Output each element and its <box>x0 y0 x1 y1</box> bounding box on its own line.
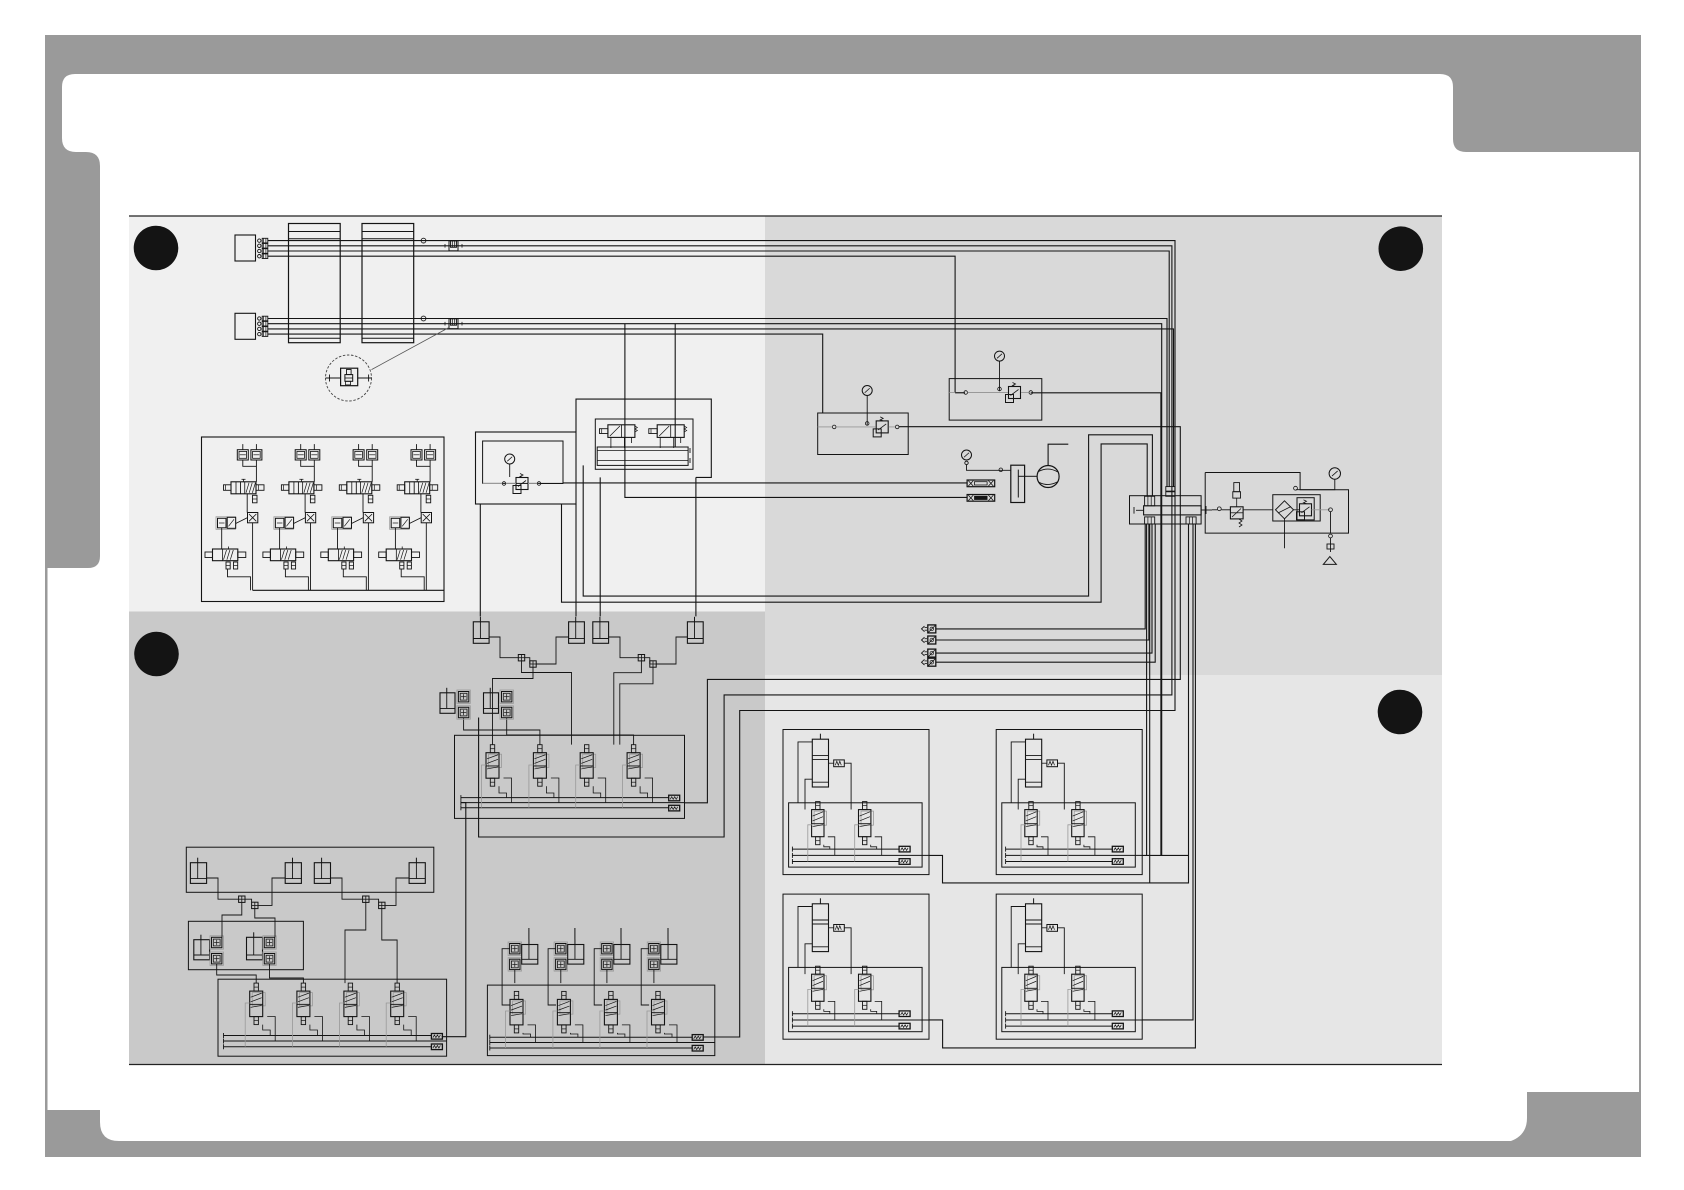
actuator box BR-B <box>996 730 1142 875</box>
wire coupling row 2 <box>936 524 1149 640</box>
pilot valve pair box <box>595 419 693 469</box>
cluster A bus wire <box>253 589 444 591</box>
wire TL to cylinder A1 rod <box>479 504 481 616</box>
cylinder C2 <box>285 863 301 884</box>
sequence valve VB4 <box>630 754 643 767</box>
wires flow controls to valves C <box>217 964 304 983</box>
bus connector DD1 <box>692 1035 703 1041</box>
cylinder B6 <box>484 693 499 714</box>
coupling QC4 <box>922 658 936 666</box>
wire BR-D out <box>1142 524 1193 1020</box>
shutoff valve SV1 <box>1212 483 1273 527</box>
flow control FB2 <box>457 706 470 719</box>
valve group A2 <box>263 444 322 590</box>
sequence valve VB2 <box>536 754 549 767</box>
wire loop rectangle <box>576 399 711 477</box>
sequence valve VB1 <box>489 754 502 767</box>
manifold block M1 <box>289 224 341 343</box>
cylinder C4 <box>409 863 425 884</box>
valve group A4 <box>379 444 438 590</box>
marker circle 4 <box>1378 690 1423 735</box>
page frame bottom-right block <box>1511 1092 1641 1141</box>
actuator box BR-C <box>783 894 929 1039</box>
terminal block X2 <box>235 313 268 339</box>
valve row frame B <box>455 735 685 818</box>
cylinder C1 <box>190 863 206 884</box>
cylinder B4 <box>687 622 703 644</box>
flow control FB4 <box>500 706 513 719</box>
cylinder B2 <box>569 622 585 644</box>
wire R1 out right <box>685 427 1181 803</box>
cylinder C6 <box>247 937 263 960</box>
sequence valve VD1 <box>513 1001 526 1014</box>
wire coupling row 3 <box>936 524 1152 653</box>
wire TL to cylinder A3 rod <box>599 477 601 616</box>
filter F2 <box>967 495 995 502</box>
bus connector BB2 <box>669 805 680 811</box>
wire bundle 1 row 1 <box>268 241 1176 1037</box>
wire coupling row 4 <box>936 524 1155 662</box>
wire manifold down feed 2 <box>1149 524 1151 883</box>
valve to bus wires C <box>245 1003 416 1047</box>
drain silencer <box>1323 508 1336 565</box>
node circle on bundle 1 <box>421 238 426 243</box>
cylinder group frame B <box>456 614 705 674</box>
wire TL to cylinder A4 rod <box>695 477 697 616</box>
wire bundle 1 row 2 <box>268 246 1172 837</box>
wires cylinders to junctions B <box>489 637 687 664</box>
valve group A3 <box>321 444 380 590</box>
node circle on bundle 2 <box>421 316 426 321</box>
bus lines C <box>224 1033 447 1049</box>
valve to bus wires D <box>506 1011 678 1048</box>
sequence valve VC2 <box>299 993 312 1006</box>
actuator box BR-D <box>996 894 1142 1039</box>
filter separator FS1 <box>1273 495 1320 549</box>
sequence valve VC4 <box>393 993 406 1006</box>
sequence valve VB3 <box>583 754 596 767</box>
manifold block M2 <box>362 224 414 343</box>
cylinder group frame C <box>186 847 433 892</box>
bus lines D <box>490 1035 715 1051</box>
check valve CV1 <box>445 241 462 251</box>
sequence valve VC3 <box>346 993 359 1006</box>
flow control frame C <box>188 921 303 969</box>
junction J4 <box>650 661 656 667</box>
junction J2 <box>530 661 536 667</box>
wire bundle 1 row 4 <box>268 256 956 393</box>
flow controls and cylinders cluster D <box>502 928 677 1005</box>
wire vertical V-B <box>674 324 676 447</box>
terminal block X1 <box>235 235 268 261</box>
sequence valve VD2 <box>560 1001 573 1014</box>
wire BR-B out <box>1142 854 1188 856</box>
flow control FC4 <box>263 952 276 965</box>
gauge PG1 <box>1294 468 1341 490</box>
wire TL to cylinder A2 rod <box>575 504 577 616</box>
page frame top bar <box>45 35 1641 152</box>
wire vertical V-A <box>625 324 967 498</box>
cylinder C5 <box>194 940 210 960</box>
valve to bus wires B <box>482 765 653 808</box>
flow control FC1 <box>210 936 223 949</box>
wire BR-C out <box>929 524 1195 1048</box>
bus connector BB1 <box>669 795 680 801</box>
cylinder B5 <box>440 693 455 714</box>
regulator R3 <box>1294 498 1331 520</box>
distribution manifold <box>1130 487 1213 524</box>
pilot valve PV2 <box>649 425 687 448</box>
wire manifold down feed 1 <box>1146 524 1148 855</box>
wire bundle 2 row 1 <box>268 319 1168 487</box>
marker circle 2 <box>1379 226 1424 271</box>
actuator box BR-A <box>783 730 929 875</box>
pilot valve manifold <box>597 447 690 465</box>
wire bundle 1 row 3 <box>268 251 1170 487</box>
wires cylinders to junctions C <box>207 878 410 905</box>
page frame right rule <box>1639 152 1641 1092</box>
valve group A1 <box>205 444 264 590</box>
diagram bottom border <box>129 1064 1442 1066</box>
cylinder B1 <box>473 622 489 644</box>
filter F1 <box>967 480 995 487</box>
coupling QC1 <box>922 625 936 633</box>
air service unit FRL1 <box>476 432 577 504</box>
quadrant backgrounds <box>129 217 765 612</box>
junction J7 <box>363 896 369 902</box>
page frame bottom bar <box>45 1141 1641 1157</box>
compressor C1 <box>1025 444 1069 487</box>
regulator box R2 <box>949 351 1042 420</box>
flow control FB3 <box>500 690 513 703</box>
wire cluster C supply <box>442 803 466 1037</box>
wire R2 out right <box>1031 393 1161 856</box>
sequence valve VD3 <box>607 1001 620 1014</box>
junction J3 <box>638 655 644 661</box>
junction J8 <box>379 902 385 908</box>
flow control FC2 <box>210 952 223 965</box>
detail circle DT1 <box>326 355 372 401</box>
wire R2 in port <box>955 392 965 394</box>
junction J1 <box>518 655 524 661</box>
page frame left tab <box>45 132 100 568</box>
cylinder C3 <box>314 863 330 884</box>
flow control FB1 <box>457 690 470 703</box>
sequence valve VC1 <box>252 993 265 1006</box>
wire coupling row 1 <box>936 524 1145 629</box>
air prep outline box <box>1205 473 1348 534</box>
junction J5 <box>239 896 245 902</box>
bus connector CC2 <box>431 1044 442 1050</box>
wire FRL supply right <box>563 482 967 484</box>
page frame bottom-left block <box>45 1110 119 1141</box>
wire FRL down riser to manifold <box>562 444 1148 602</box>
wires junctions down cluster C <box>222 902 397 983</box>
sequence valve VD4 <box>654 1001 667 1014</box>
wire BR-A out <box>929 524 1189 883</box>
marker circle 1 <box>134 226 179 271</box>
wire pilot manifold riser to manifold <box>583 435 1152 596</box>
bus lines B <box>461 795 685 810</box>
wires flow controls to valves B <box>464 718 634 745</box>
wire bundle 2 row 4 <box>268 334 823 413</box>
wires junctions down cluster B <box>493 661 654 745</box>
bus connector CC1 <box>431 1034 442 1040</box>
diagram top border <box>129 215 1442 217</box>
compressor supply group <box>962 450 1025 503</box>
valve cluster frame A <box>202 437 445 602</box>
coupling QC2 <box>922 636 936 644</box>
regulator box R1 <box>818 386 909 455</box>
marker circle 3 <box>134 632 179 677</box>
junction J6 <box>252 902 258 908</box>
check valve CV2 <box>445 319 462 329</box>
coupling QC3 <box>922 649 936 657</box>
valve row frame D <box>487 985 714 1056</box>
wire bundle 2 row 3 <box>268 329 1174 487</box>
pilot valve PV1 <box>600 425 638 448</box>
cylinder B3 <box>593 622 609 644</box>
valve row frame C <box>218 979 447 1056</box>
wire bundle 2 row 2 <box>268 324 1162 856</box>
bus connector DD2 <box>692 1045 703 1051</box>
page frame left rule <box>45 568 48 1110</box>
leader line to detail circle <box>372 327 450 369</box>
flow control FC3 <box>263 936 276 949</box>
